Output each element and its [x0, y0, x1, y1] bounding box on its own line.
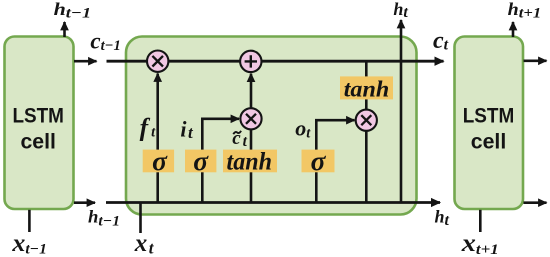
multiply node forget: [147, 51, 168, 72]
wire hidden-state bottom line h: [106, 201, 440, 204]
svg-text:xt: xt: [134, 230, 155, 257]
svg-text:σ: σ: [311, 145, 327, 176]
svg-text:LSTM: LSTM: [12, 104, 64, 128]
sigma gate box f: [143, 145, 174, 176]
svg-text:LSTM: LSTM: [463, 104, 515, 128]
svg-text:ht: ht: [393, 0, 408, 21]
wire tanh branch from c line: [365, 61, 368, 202]
wire candidate c~: [250, 74, 253, 203]
svg-text:ct: ct: [433, 28, 449, 54]
svg-text:ht: ht: [435, 206, 450, 229]
tanh box on cell state: [340, 76, 393, 101]
wire h(t-1) up arrow from left cell: [63, 22, 66, 37]
label c~(t): [232, 128, 247, 150]
svg-text:ct−1: ct−1: [90, 29, 121, 55]
sigma gate box o: [302, 145, 335, 176]
wire h(t-1) arrow out of left cell bottom: [74, 201, 95, 204]
wire h(t+1) arrow out of right cell bottom: [524, 201, 547, 204]
multiply node input: [240, 108, 261, 129]
multiply node output: [356, 110, 377, 131]
svg-text:cell: cell: [20, 130, 56, 154]
svg-text:tanh: tanh: [227, 149, 273, 176]
svg-text:xt−1: xt−1: [11, 230, 47, 257]
wire h(t+1) up arrow from right cell: [512, 22, 515, 37]
svg-text:tanh: tanh: [344, 77, 390, 102]
svg-text:ht−1: ht−1: [54, 0, 92, 22]
svg-text:σ: σ: [152, 145, 168, 176]
svg-text:ht+1: ht+1: [508, 0, 542, 22]
wire cell-state line c: [107, 60, 444, 63]
wire c(t+1) arrow out of right cell: [524, 59, 547, 62]
LSTM cell block left: [5, 37, 74, 210]
wire c(t-1) arrow out of left cell: [74, 60, 97, 63]
LSTM internal cell box: [126, 37, 417, 215]
svg-text:ht−1: ht−1: [88, 207, 120, 230]
wire output gate o: [316, 120, 354, 202]
tanh gate box candidate: [223, 149, 277, 176]
wire x(t) input stub: [139, 203, 142, 234]
wire h(t) branch up: [400, 20, 403, 203]
wire forget gate f: [156, 74, 159, 203]
wire x(t+1) input stub: [479, 210, 482, 232]
LSTM cell block right: [455, 37, 524, 210]
svg-text:cell: cell: [471, 130, 507, 154]
svg-text:xt+1: xt+1: [461, 230, 499, 257]
svg-text:σ: σ: [193, 145, 209, 176]
wire input gate i: [202, 119, 239, 203]
sigma gate box i: [185, 145, 216, 176]
add node: [240, 51, 261, 72]
wire x(t-1) input stub: [28, 210, 31, 232]
